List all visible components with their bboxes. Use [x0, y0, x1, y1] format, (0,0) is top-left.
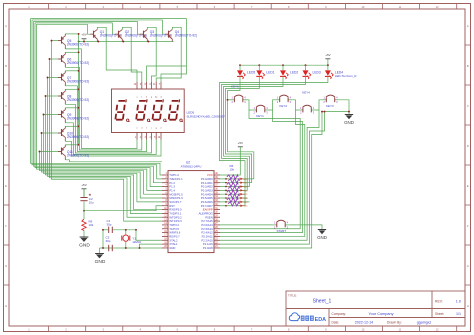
svg-text:B: B: [5, 64, 7, 68]
transistor Q2: [115, 29, 147, 41]
svg-text:XTAL1: XTAL1: [169, 242, 178, 246]
resistor R5: [82, 219, 94, 230]
transistor Q11: [58, 145, 89, 160]
svg-text:VCC: VCC: [243, 206, 248, 208]
resistor R6 element 8: [228, 202, 248, 208]
svg-text:H: H: [467, 304, 469, 308]
LED LED4: [325, 65, 357, 79]
svg-text:ALE/PROG: ALE/PROG: [199, 212, 213, 216]
wire Q1-Q4 collectors to display top pins: [97, 27, 181, 81]
svg-text:P0.0/AD0: P0.0/AD0: [201, 177, 213, 181]
transistor Q10: [58, 126, 89, 141]
svg-text:VCC: VCC: [243, 190, 248, 192]
svg-text:SCK/P1.7: SCK/P1.7: [169, 200, 182, 204]
svg-text:Date:: Date:: [332, 321, 340, 325]
transistor Q3: [140, 29, 172, 41]
svg-text:P0.1/AD1: P0.1/AD1: [201, 181, 213, 185]
svg-text:VCC: VCC: [243, 183, 248, 185]
MCU U2 reference labels: [181, 161, 202, 169]
svg-text:MOSI/P1.5: MOSI/P1.5: [169, 192, 183, 196]
svg-text:SLR0524DYKxBD_C2693057: SLR0524DYKxBD_C2693057: [187, 114, 226, 118]
capacitor C2: [80, 189, 94, 205]
svg-text:LED5: LED5: [247, 71, 255, 75]
svg-text:KEY1: KEY1: [256, 114, 264, 118]
capacitor C1: [107, 219, 113, 233]
svg-text:KEY2: KEY2: [279, 104, 287, 108]
svg-text:P1.2: P1.2: [169, 181, 175, 185]
transistor Q5: [58, 34, 89, 49]
transistor Q7: [58, 71, 89, 86]
key KEY1: [252, 105, 269, 118]
svg-text:P2.5/A13: P2.5/A13: [201, 227, 213, 231]
wire far net to display pin6: [161, 19, 186, 82]
svg-text:EA/VPP: EA/VPP: [203, 208, 213, 212]
svg-text:c: c: [151, 127, 152, 129]
wire key GND chain: [321, 111, 350, 113]
svg-text:VCC: VCC: [243, 198, 248, 200]
svg-text:KEY6: KEY6: [231, 84, 239, 88]
svg-text:30p: 30p: [106, 239, 111, 243]
+5V net flag transistor rail: [81, 32, 86, 41]
svg-text:2N3906(TO-92): 2N3906(TO-92): [67, 61, 89, 65]
ground crystal: [95, 248, 106, 265]
LED LED3: [303, 65, 321, 79]
wire LED cathode bundle to P0: [220, 79, 328, 206]
svg-text:MISO/P1.6: MISO/P1.6: [169, 196, 183, 200]
svg-text:VCC: VCC: [243, 202, 248, 204]
capacitor C3: [106, 236, 113, 252]
svg-text:VCC: VCC: [243, 179, 248, 181]
svg-text:+5V: +5V: [81, 32, 86, 36]
svg-text:P1.3: P1.3: [169, 185, 175, 189]
display digits: [114, 99, 182, 122]
wire KEY6 left to LED net: [227, 99, 232, 101]
wire key chain links: [246, 100, 349, 115]
wire C2 to R5: [83, 202, 85, 238]
svg-text:KEY4: KEY4: [302, 91, 310, 95]
key KEY4: [299, 91, 316, 115]
svg-text:Sheet:: Sheet:: [435, 312, 444, 316]
resistor R6 element 4: [228, 186, 248, 192]
wire left emitter rail: [65, 33, 79, 146]
svg-text:2N3906(TO-92): 2N3906(TO-92): [67, 80, 89, 84]
wire base drops Q1-Q4: [88, 20, 168, 34]
svg-text:INT1/P3.3: INT1/P3.3: [169, 219, 182, 223]
transistor Q4: [165, 29, 197, 41]
key START: [273, 220, 290, 233]
wire P0 pull-up rows: [220, 178, 250, 207]
svg-text:T1/P3.5: T1/P3.5: [169, 227, 179, 231]
svg-text:D: D: [467, 144, 469, 148]
resistor R6 element 2: [228, 179, 248, 185]
svg-text:VCC: VCC: [207, 173, 213, 177]
LED LED5: [237, 65, 255, 79]
+5V net flag MCU VCC: [220, 141, 243, 175]
transistor Q1: [90, 29, 122, 41]
EasyEDA logo: [289, 313, 326, 323]
svg-text:LED-TH-3mm_R: LED-TH-3mm_R: [335, 74, 357, 78]
svg-text:RXD/P3.0: RXD/P3.0: [169, 208, 182, 212]
svg-text:P0.2/AD2: P0.2/AD2: [201, 185, 213, 189]
svg-text:T2/P1.0: T2/P1.0: [169, 173, 179, 177]
svg-text:2N3906(TO-92): 2N3906(TO-92): [175, 33, 197, 37]
wire +5V emitter rail: [79, 41, 174, 43]
svg-text:H: H: [5, 304, 7, 308]
svg-text:TXD/P3.1: TXD/P3.1: [169, 212, 181, 216]
LED LED2: [280, 65, 298, 79]
svg-text:2N3906(TO-92): 2N3906(TO-92): [67, 154, 89, 158]
wire key columns to P2: [220, 110, 325, 248]
wire RST to R5/C2 node: [83, 206, 162, 212]
svg-text:KEY3: KEY3: [326, 104, 334, 108]
svg-text:LED2: LED2: [290, 71, 298, 75]
svg-text:T2EX/P1.1: T2EX/P1.1: [169, 177, 183, 181]
svg-text:LED3: LED3: [313, 71, 321, 75]
svg-text:Company:: Company:: [332, 312, 347, 316]
svg-text:PSEN: PSEN: [205, 215, 213, 219]
svg-text:P0.5/AD5: P0.5/AD5: [201, 196, 213, 200]
key KEY3: [322, 95, 339, 108]
svg-text:P2.1/A9: P2.1/A9: [203, 242, 213, 246]
svg-text:2N3906(TO-92): 2N3906(TO-92): [67, 135, 89, 139]
svg-text:10u: 10u: [89, 200, 94, 204]
display label: [187, 110, 226, 118]
svg-text:1/1: 1/1: [456, 312, 461, 316]
svg-text:P0.7/AD7: P0.7/AD7: [201, 204, 213, 208]
svg-text:GND: GND: [169, 246, 175, 250]
MCU U2 body: [168, 171, 214, 253]
wire crystal circuit: [100, 229, 163, 249]
svg-text:30p: 30p: [107, 223, 112, 227]
wire START row: [220, 225, 322, 230]
svg-text:REV:: REV:: [435, 299, 443, 303]
svg-text:10k: 10k: [230, 168, 235, 172]
svg-text:G: G: [467, 264, 469, 268]
LED LED1: [256, 65, 274, 79]
ground key matrix: [344, 115, 354, 125]
resistor R6 element 3: [227, 183, 248, 189]
svg-text:RST: RST: [169, 204, 175, 208]
svg-text:T0/P3.4: T0/P3.4: [169, 223, 179, 227]
svg-text:INT0/P3.2: INT0/P3.2: [169, 215, 182, 219]
ground START: [317, 230, 327, 240]
crystal Y1: [122, 235, 142, 244]
+5V net flag LED rail: [325, 53, 330, 65]
wire LED anode rail: [239, 64, 329, 66]
key KEY2: [276, 95, 293, 108]
svg-text:RD/P3.7: RD/P3.7: [169, 235, 180, 239]
svg-text:P2.2/A10: P2.2/A10: [201, 238, 213, 242]
svg-text:VCC: VCC: [243, 194, 248, 196]
svg-text:P0.6/AD6: P0.6/AD6: [201, 200, 213, 204]
svg-text:E: E: [467, 184, 469, 188]
svg-text:GND: GND: [317, 235, 327, 240]
transistor Q6: [58, 52, 89, 67]
svg-text:2022-12-14: 2022-12-14: [355, 321, 373, 325]
svg-text:2N3906(TO-92): 2N3906(TO-92): [67, 117, 89, 121]
junction dots on +5V rail: [78, 41, 150, 43]
svg-text:TITLE:: TITLE:: [288, 294, 297, 298]
svg-text:P2.7/A15: P2.7/A15: [201, 219, 213, 223]
svg-text:P2.3/A11: P2.3/A11: [202, 235, 214, 239]
svg-text:Sheet_1: Sheet_1: [313, 299, 332, 305]
wire display pin3 net: [147, 66, 187, 82]
display LED5 body: [112, 82, 185, 140]
svg-text:P1.4: P1.4: [169, 188, 175, 192]
wire Q11 collector: [65, 160, 162, 162]
svg-text:+5V: +5V: [238, 141, 243, 145]
resistor R6 element 5: [227, 190, 248, 196]
svg-text:+5V: +5V: [325, 53, 330, 57]
svg-text:G: G: [5, 264, 7, 268]
resistor R6 element 1: [227, 175, 248, 181]
svg-text:P0.3/AD3: P0.3/AD3: [201, 188, 213, 192]
svg-text:P0.4/AD4: P0.4/AD4: [201, 192, 213, 196]
svg-text:2N3906(TO-92): 2N3906(TO-92): [67, 98, 89, 102]
svg-text:ggamgxz: ggamgxz: [417, 321, 432, 325]
+5V net flag RST circuit: [81, 183, 86, 197]
svg-text:GND: GND: [79, 243, 90, 249]
svg-text:EDA: EDA: [315, 317, 326, 323]
svg-text:P2.0/A8: P2.0/A8: [203, 246, 213, 250]
svg-text:P2.6/A14: P2.6/A14: [201, 223, 213, 227]
resistor network R6 labels: [230, 164, 235, 171]
svg-text:C: C: [467, 104, 469, 108]
svg-text:VCC: VCC: [243, 187, 248, 189]
svg-text:P2.4/A12: P2.4/A12: [201, 231, 213, 235]
svg-text:C: C: [5, 104, 7, 108]
title block texts: [288, 294, 461, 325]
transistor Q9: [58, 108, 89, 123]
svg-text:10k: 10k: [89, 223, 94, 227]
MCU U2 pins left: [162, 172, 183, 250]
svg-text:Drawn By:: Drawn By:: [387, 321, 402, 325]
svg-text:AT89S52-24PU: AT89S52-24PU: [181, 164, 202, 168]
resistor R6 element 7: [227, 198, 248, 204]
svg-text:A: A: [5, 24, 7, 28]
key KEY6: [230, 95, 247, 104]
svg-text:GND: GND: [344, 120, 354, 125]
svg-text:WR/P3.6: WR/P3.6: [169, 231, 180, 235]
svg-text:XTAL2: XTAL2: [169, 238, 178, 242]
svg-text:GND: GND: [95, 259, 106, 265]
svg-text:2N3906(TO-92): 2N3906(TO-92): [67, 43, 89, 47]
svg-text:1.0: 1.0: [456, 299, 461, 303]
svg-text:B: B: [467, 64, 469, 68]
wire bundle Q bases to MCU P1/P3: [31, 19, 163, 222]
svg-text:START: START: [277, 229, 287, 233]
svg-text:E: E: [5, 184, 7, 188]
svg-text:+5V: +5V: [81, 183, 86, 187]
svg-text:A: A: [467, 24, 469, 28]
title block box: [286, 291, 465, 326]
svg-text:LED1: LED1: [266, 71, 274, 75]
transistor Q8: [58, 89, 89, 104]
svg-text:Your Company: Your Company: [369, 312, 394, 316]
ground R5: [79, 237, 90, 249]
svg-text:D: D: [5, 144, 7, 148]
wire Q5-Q10 collectors to display bottom pins: [65, 49, 161, 156]
wire top corner bundle to Q1-Q4 bases: [31, 19, 187, 25]
resistor R6 element 6: [228, 194, 248, 200]
MCU U2 pins right: [199, 172, 220, 250]
svg-text:12MHz: 12MHz: [132, 240, 142, 244]
